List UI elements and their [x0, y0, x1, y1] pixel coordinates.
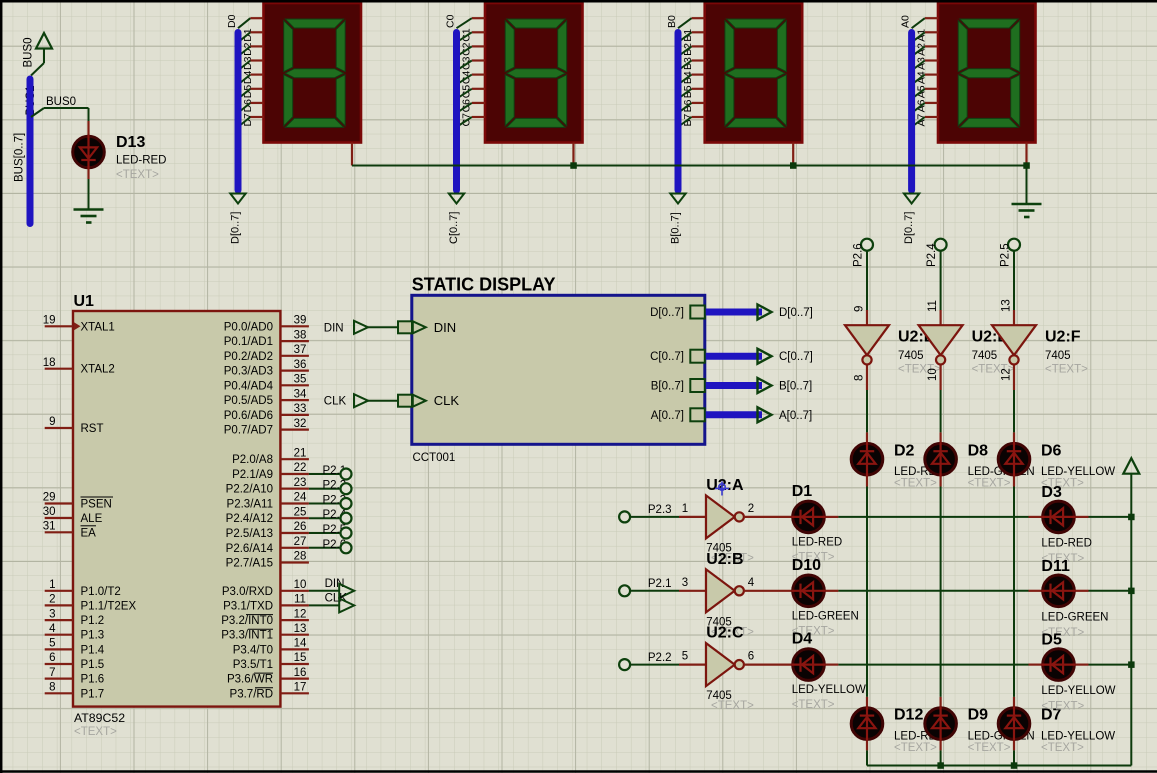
svg-text:U2:B: U2:B — [706, 551, 743, 568]
svg-text:25: 25 — [294, 506, 307, 518]
svg-text:AT89C52: AT89C52 — [74, 711, 125, 725]
svg-text:EA: EA — [81, 527, 97, 539]
svg-text:A[0..7]: A[0..7] — [651, 410, 684, 422]
svg-text:1: 1 — [49, 579, 55, 591]
svg-text:P1.4: P1.4 — [81, 644, 105, 656]
svg-text:19: 19 — [43, 315, 56, 327]
svg-text:P3.0/RXD: P3.0/RXD — [222, 586, 273, 598]
svg-text:2: 2 — [748, 503, 754, 515]
svg-text:3: 3 — [49, 608, 55, 620]
svg-text:D2: D2 — [894, 442, 915, 459]
svg-text:U2:F: U2:F — [1045, 329, 1081, 346]
svg-text:<TEXT>: <TEXT> — [792, 699, 835, 711]
svg-text:5: 5 — [49, 638, 55, 650]
svg-text:P2.4/A12: P2.4/A12 — [226, 513, 273, 525]
svg-text:C[0..7]: C[0..7] — [448, 212, 460, 244]
svg-text:P2.1/A9: P2.1/A9 — [232, 469, 273, 481]
svg-text:2: 2 — [49, 594, 55, 606]
svg-text:B0: B0 — [666, 15, 678, 28]
svg-text:4: 4 — [49, 623, 56, 635]
svg-text:23: 23 — [294, 477, 307, 489]
svg-text:P1.1/T2EX: P1.1/T2EX — [81, 600, 137, 612]
svg-text:<TEXT>: <TEXT> — [711, 700, 754, 712]
svg-text:D1: D1 — [792, 483, 813, 500]
svg-text:24: 24 — [294, 492, 307, 504]
svg-text:<TEXT>: <TEXT> — [1041, 701, 1084, 713]
svg-text:D[0..7]: D[0..7] — [903, 212, 915, 244]
svg-text:P2.2: P2.2 — [648, 652, 672, 664]
svg-text:D12: D12 — [894, 707, 923, 724]
svg-text:D9: D9 — [968, 707, 989, 724]
svg-text:<TEXT>: <TEXT> — [894, 742, 937, 754]
svg-text:5: 5 — [682, 651, 688, 663]
svg-text:10: 10 — [294, 579, 307, 591]
svg-text:14: 14 — [294, 638, 307, 650]
svg-text:BUS0: BUS0 — [46, 96, 76, 108]
svg-text:D0: D0 — [226, 14, 238, 28]
svg-text:<TEXT>: <TEXT> — [894, 478, 937, 490]
svg-text:LED-GREEN: LED-GREEN — [1041, 611, 1108, 623]
svg-text:ALE: ALE — [81, 513, 103, 525]
svg-text:P3.3/INT1: P3.3/INT1 — [221, 630, 273, 642]
svg-text:4: 4 — [748, 577, 755, 589]
svg-text:CCT001: CCT001 — [413, 452, 456, 464]
svg-text:LED-YELLOW: LED-YELLOW — [1041, 685, 1115, 697]
svg-text:P0.1/AD1: P0.1/AD1 — [224, 336, 273, 348]
svg-text:36: 36 — [294, 359, 307, 371]
svg-text:DIN: DIN — [324, 322, 344, 334]
svg-text:P0.2/AD2: P0.2/AD2 — [224, 351, 273, 363]
svg-text:7405: 7405 — [972, 350, 998, 362]
svg-text:STATIC DISPLAY: STATIC DISPLAY — [412, 275, 556, 295]
svg-text:D4: D4 — [792, 631, 813, 648]
svg-text:P3.7/RD: P3.7/RD — [230, 688, 273, 700]
svg-text:LED-YELLOW: LED-YELLOW — [1041, 466, 1115, 478]
svg-text:13: 13 — [294, 623, 307, 635]
svg-text:P1.0/T2: P1.0/T2 — [81, 586, 121, 598]
svg-text:P0.7/AD7: P0.7/AD7 — [224, 425, 273, 437]
svg-text:XTAL2: XTAL2 — [81, 364, 115, 376]
svg-text:7405: 7405 — [898, 350, 924, 362]
svg-text:8: 8 — [49, 682, 55, 694]
svg-text:30: 30 — [43, 506, 56, 518]
svg-text:27: 27 — [294, 536, 307, 548]
svg-text:PSEN: PSEN — [81, 499, 112, 511]
svg-text:P3.6/WR: P3.6/WR — [227, 674, 273, 686]
svg-text:P0.5/AD5: P0.5/AD5 — [224, 395, 273, 407]
svg-text:8: 8 — [854, 375, 866, 381]
svg-text:C0: C0 — [444, 14, 456, 28]
svg-text:D5: D5 — [1041, 632, 1062, 649]
svg-text:<TEXT>: <TEXT> — [1041, 742, 1084, 754]
svg-text:B[0..7]: B[0..7] — [779, 381, 812, 393]
svg-text:<TEXT>: <TEXT> — [1045, 364, 1088, 376]
svg-text:P2.1: P2.1 — [648, 578, 672, 590]
svg-text:P1.5: P1.5 — [81, 659, 105, 671]
svg-text:P3.1/TXD: P3.1/TXD — [223, 600, 273, 612]
svg-text:11: 11 — [294, 594, 306, 606]
svg-text:LED-YELLOW: LED-YELLOW — [792, 684, 866, 696]
svg-text:37: 37 — [294, 344, 307, 356]
svg-text:P2.6/A14: P2.6/A14 — [226, 543, 274, 555]
svg-text:U2:C: U2:C — [706, 625, 744, 642]
svg-text:P2.5: P2.5 — [1000, 243, 1012, 267]
svg-text:B[0..7]: B[0..7] — [670, 212, 682, 244]
svg-text:11: 11 — [927, 300, 939, 312]
svg-text:D[0..7]: D[0..7] — [779, 307, 813, 319]
svg-text:P0.3/AD3: P0.3/AD3 — [224, 366, 273, 378]
svg-text:39: 39 — [294, 315, 307, 327]
svg-text:CLK: CLK — [434, 393, 460, 408]
svg-text:DIN: DIN — [434, 320, 456, 335]
svg-text:C[0..7]: C[0..7] — [779, 351, 813, 363]
svg-text:P2.0/A8: P2.0/A8 — [232, 454, 273, 466]
svg-text:B[0..7]: B[0..7] — [651, 381, 684, 393]
svg-text:21: 21 — [294, 447, 307, 459]
svg-text:1: 1 — [682, 503, 688, 515]
svg-text:P1.6: P1.6 — [81, 674, 105, 686]
svg-text:D3: D3 — [1041, 484, 1062, 501]
svg-text:33: 33 — [294, 403, 307, 415]
svg-text:35: 35 — [294, 374, 307, 386]
svg-text:34: 34 — [294, 388, 307, 400]
svg-text:16: 16 — [294, 667, 307, 679]
svg-text:9: 9 — [854, 306, 866, 312]
svg-text:29: 29 — [43, 492, 56, 504]
svg-text:28: 28 — [294, 551, 307, 563]
svg-text:P1.3: P1.3 — [81, 630, 105, 642]
svg-text:31: 31 — [43, 521, 56, 533]
svg-text:P2.3: P2.3 — [648, 504, 672, 516]
svg-text:CLK: CLK — [325, 592, 348, 604]
svg-text:D11: D11 — [1041, 558, 1070, 575]
svg-text:LED-RED: LED-RED — [1041, 537, 1091, 549]
svg-text:<TEXT>: <TEXT> — [116, 169, 159, 181]
svg-text:6: 6 — [748, 651, 754, 663]
svg-text:13: 13 — [1001, 299, 1013, 312]
svg-text:P1.2: P1.2 — [81, 615, 105, 627]
svg-text:BUS0: BUS0 — [22, 37, 34, 67]
svg-text:A[0..7]: A[0..7] — [779, 410, 812, 422]
svg-text:P3.5/T1: P3.5/T1 — [233, 659, 273, 671]
svg-text:26: 26 — [294, 521, 307, 533]
svg-text:22: 22 — [294, 462, 307, 474]
svg-text:D10: D10 — [792, 557, 821, 574]
svg-text:P2.6: P2.6 — [853, 243, 865, 267]
svg-text:P0.6/AD6: P0.6/AD6 — [224, 410, 273, 422]
svg-text:P2.5/A13: P2.5/A13 — [226, 528, 273, 540]
svg-text:7: 7 — [49, 667, 55, 679]
svg-text:LED-RED: LED-RED — [116, 155, 166, 167]
svg-text:U1: U1 — [74, 293, 95, 310]
svg-text:9: 9 — [49, 416, 55, 428]
svg-text:18: 18 — [43, 357, 56, 369]
svg-text:P3.2/INT0: P3.2/INT0 — [221, 615, 273, 627]
svg-text:<TEXT>: <TEXT> — [968, 742, 1011, 754]
svg-text:P2.7/A15: P2.7/A15 — [226, 558, 273, 570]
svg-text:D6: D6 — [1041, 442, 1062, 459]
svg-text:LED-GREEN: LED-GREEN — [792, 610, 859, 622]
svg-text:P2.2/A10: P2.2/A10 — [226, 484, 273, 496]
svg-text:P0.4/AD4: P0.4/AD4 — [224, 380, 274, 392]
svg-text:3: 3 — [682, 577, 688, 589]
svg-text:32: 32 — [294, 418, 307, 430]
svg-text:P2.4: P2.4 — [926, 243, 938, 267]
svg-text:CLK: CLK — [324, 396, 347, 408]
svg-text:7405: 7405 — [1045, 350, 1071, 362]
svg-text:D[0..7]: D[0..7] — [650, 307, 684, 319]
svg-text:15: 15 — [294, 652, 307, 664]
svg-text:10: 10 — [927, 368, 939, 381]
svg-text:LED-RED: LED-RED — [792, 536, 842, 548]
svg-text:12: 12 — [294, 608, 307, 620]
svg-text:C[0..7]: C[0..7] — [650, 351, 684, 363]
svg-text:17: 17 — [294, 682, 307, 694]
svg-text:BUS[0..7]: BUS[0..7] — [13, 133, 25, 182]
svg-text:XTAL1: XTAL1 — [81, 321, 115, 333]
svg-text:D8: D8 — [968, 442, 989, 459]
svg-text:D13: D13 — [116, 134, 145, 151]
svg-text:P0.0/AD0: P0.0/AD0 — [224, 321, 273, 333]
svg-text:P1.7: P1.7 — [81, 688, 105, 700]
svg-text:D[0..7]: D[0..7] — [230, 212, 242, 244]
svg-text:38: 38 — [294, 329, 307, 341]
svg-text:P3.4/T0: P3.4/T0 — [233, 644, 273, 656]
svg-text:A0: A0 — [899, 15, 911, 28]
svg-text:<TEXT>: <TEXT> — [74, 726, 117, 738]
svg-text:12: 12 — [1001, 368, 1013, 381]
svg-text:<TEXT>: <TEXT> — [968, 478, 1011, 490]
svg-text:6: 6 — [49, 652, 55, 664]
svg-text:P2.3/A11: P2.3/A11 — [227, 499, 273, 511]
svg-text:RST: RST — [81, 423, 104, 435]
svg-text:LED-YELLOW: LED-YELLOW — [1041, 731, 1115, 743]
